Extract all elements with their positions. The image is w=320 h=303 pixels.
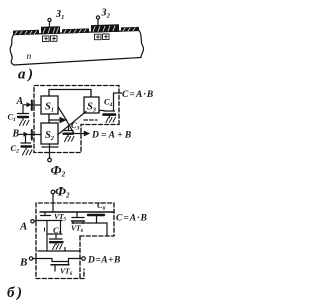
- gate terminal З2: [96, 16, 99, 28]
- dashed box bottom: [36, 203, 114, 279]
- capacitor C1: [18, 105, 30, 126]
- gate rail: [40, 211, 114, 213]
- svg-text:A: A: [19, 221, 27, 233]
- transistor VT6 bottom: [51, 259, 69, 272]
- svg-text:A: A: [16, 96, 24, 107]
- arrow wire into crossing node: [49, 117, 67, 124]
- electrode strip middle: [62, 28, 89, 33]
- bottom rail: [38, 250, 80, 252]
- svg-text:D=A+B: D=A+B: [91, 131, 133, 141]
- wire S1 output diagonal: [59, 108, 68, 122]
- input B: [12, 129, 42, 140]
- electrode strip right: [121, 27, 139, 32]
- capacitor C4: [99, 93, 122, 123]
- clock terminal Ф2 bottom: [51, 190, 55, 211]
- D output wire with arrow: [71, 131, 90, 137]
- svg-text:б): б): [7, 285, 24, 301]
- svg-text:а): а): [18, 67, 36, 83]
- input A: [16, 96, 42, 110]
- lower loop bar: [47, 233, 62, 235]
- svg-text:D=A+B: D=A+B: [87, 256, 121, 266]
- D output bottom: [69, 257, 86, 261]
- block S3: [84, 97, 99, 113]
- source rail: [72, 222, 107, 224]
- wire S2 to S3 diagonal: [58, 112, 86, 135]
- rail tick: [64, 248, 66, 252]
- substrate bar outline: [10, 31, 144, 66]
- gate terminal З1: [48, 18, 51, 30]
- wire node down: [106, 223, 108, 236]
- transistor VT5: [41, 212, 51, 231]
- clock terminal Ф2 middle: [42, 144, 58, 162]
- wire S1 top to S3 top: [49, 90, 91, 98]
- svg-text:C=A·B: C=A·B: [122, 90, 154, 100]
- block S2: [41, 123, 58, 144]
- svg-text:B: B: [12, 129, 20, 140]
- n+ region boxes under gate 1: [43, 36, 58, 42]
- A rail: [36, 220, 62, 222]
- n+ region boxes under gate 2: [95, 34, 110, 40]
- electrode strip left: [13, 30, 39, 35]
- dashed box middle: [34, 86, 119, 153]
- capacitor C2: [21, 135, 32, 156]
- svg-text:n: n: [27, 52, 32, 62]
- dashed inner line: [84, 119, 97, 121]
- wire crossing diagonal down: [67, 121, 75, 134]
- transistor VT6: [72, 212, 85, 224]
- capacitor C3: [63, 126, 74, 142]
- svg-text:C=A·B: C=A·B: [116, 214, 148, 224]
- wire S1 bottom to S2 top: [48, 114, 50, 123]
- gate stack 1: [41, 26, 60, 34]
- leg left: [46, 221, 48, 252]
- svg-text:B: B: [19, 257, 27, 269]
- input B bottom: [19, 257, 52, 269]
- block S1: [41, 96, 58, 114]
- gate stack 2: [91, 24, 119, 32]
- input A bottom: [19, 220, 36, 233]
- leg right: [60, 221, 62, 235]
- capacitor C5: [50, 234, 63, 250]
- capacitor C6: [88, 215, 104, 223]
